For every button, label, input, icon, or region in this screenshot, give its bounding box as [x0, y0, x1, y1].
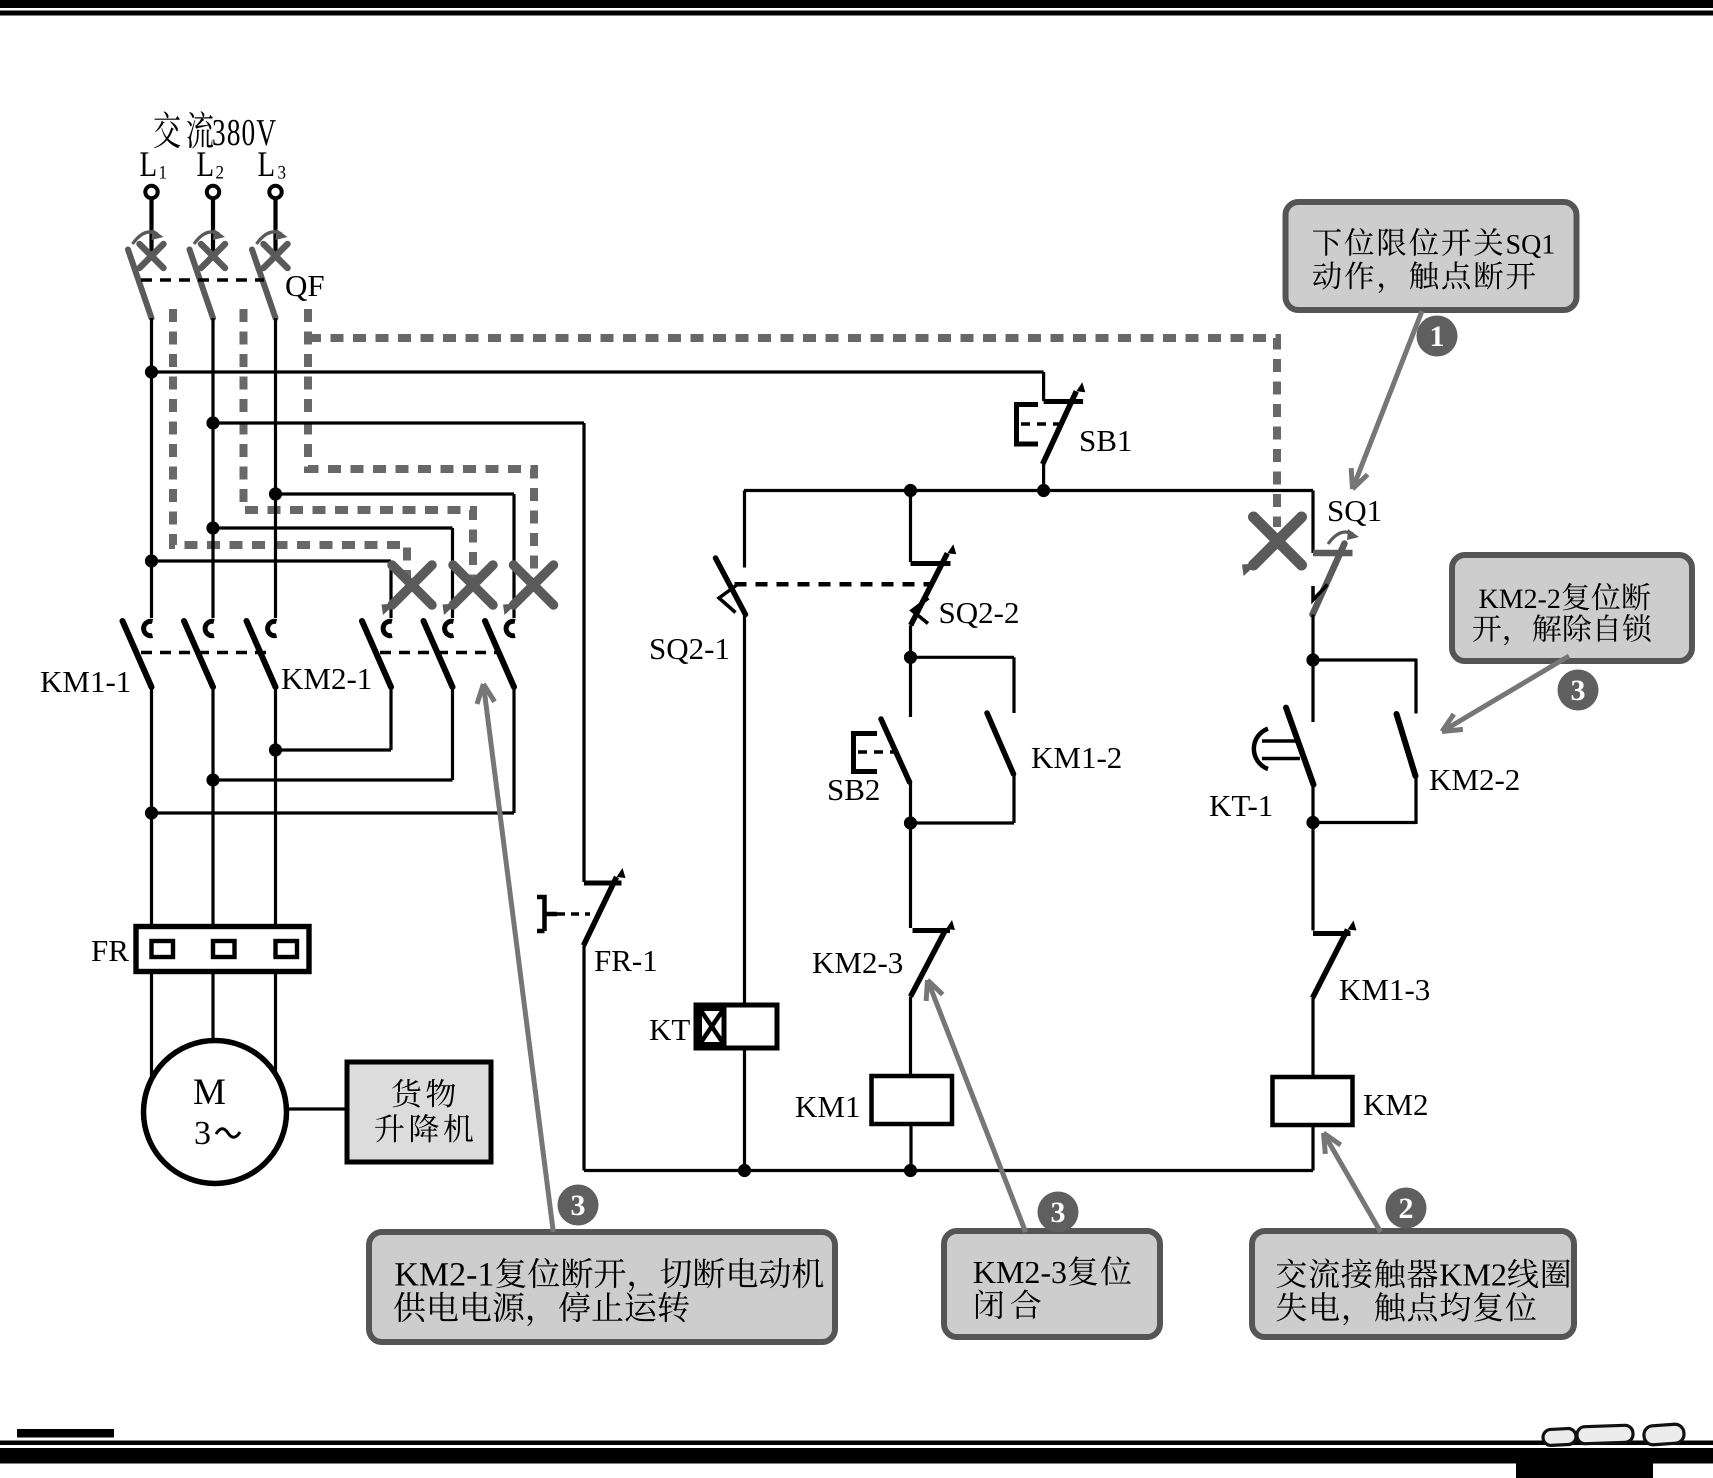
node KT bottom — [738, 1164, 751, 1177]
trip-link dashed bus B (QF pole2 to KM2-1 pole2) — [244, 309, 474, 585]
wire L3 vertical — [274, 318, 277, 618]
wire FR out 1 — [150, 971, 153, 1080]
contact KM1-1 pole3 blade — [247, 621, 276, 687]
contact KM1-1 pole1 hook — [144, 621, 153, 635]
wire KM2-1 pole1 cross — [276, 748, 392, 751]
contact FR-1 actuator — [537, 897, 557, 931]
callout SQ1 text line1 — [1313, 229, 1341, 256]
callout KM2 box — [1252, 1231, 1574, 1337]
limit switch SQ2-2 blade — [911, 553, 948, 625]
wire KM1-1 pole1 out — [150, 686, 153, 927]
FR heater 2 — [213, 941, 235, 957]
wire KM2-2 drop — [1414, 659, 1417, 714]
terminal L1 label — [140, 152, 155, 176]
wire KM2-1 pole3 cross — [152, 811, 515, 814]
contact KM2-1 pole1 hook — [383, 621, 392, 635]
border bottom rule — [0, 1441, 1713, 1446]
pushbutton SB2 blade — [881, 719, 910, 782]
wire L2 vertical — [211, 318, 214, 618]
pushbutton SB1 cap — [1017, 405, 1039, 445]
motor M circle — [144, 1041, 287, 1184]
svg-text:SQ1: SQ1 — [1327, 493, 1382, 528]
callout SQ1 text line2 — [1313, 261, 1341, 289]
QF pole1 blade — [128, 250, 152, 319]
border top rule — [0, 11, 1713, 16]
callout KM2 text line1 — [1277, 1259, 1307, 1288]
svg-text:SB1: SB1 — [1079, 423, 1132, 458]
wire KM2-1 pole2 drop — [451, 528, 454, 618]
wire KM1-1 pole2 out — [211, 686, 214, 927]
KM2-1 pole2 X mark — [453, 565, 493, 605]
trip-link dashed bus C (QF pole3 to KM2-1 pole3) — [308, 309, 534, 585]
callout KM2-1 text line2 — [394, 1292, 425, 1322]
wire KM2-1 pole3 out — [512, 686, 515, 813]
contact KM2-3 blade — [911, 929, 947, 997]
wire KM1-3 drop — [1311, 823, 1314, 931]
wire SB2 drop — [909, 657, 912, 717]
wire KM2-3 out — [909, 997, 912, 1077]
trip-link dashed bus A (QF pole1 to KM2-1 pole1) — [173, 309, 407, 585]
wire KM2-1 pole1 out — [389, 686, 392, 750]
wire KM2-2 out — [1414, 776, 1417, 824]
contact FR-1 blade — [584, 877, 617, 946]
pushbutton SB2 cap — [854, 734, 878, 772]
limit switch SQ1 open-arrow — [1328, 532, 1353, 544]
contact KM1-1 pole3 hook — [268, 621, 277, 635]
wire FR out 2 — [211, 971, 214, 1041]
contact KM1-3 blade — [1313, 930, 1348, 999]
wire KM2-1 pole2 out — [451, 686, 454, 780]
badge 2 — [1386, 1188, 1427, 1229]
QF linkage dashes — [141, 278, 264, 282]
contact KM2-1 pole2 hook — [445, 621, 454, 635]
wire KT out — [743, 1048, 746, 1171]
wire KM1 out — [909, 1124, 912, 1171]
svg-text:SB2: SB2 — [827, 772, 880, 807]
svg-text:KM2: KM2 — [1363, 1087, 1428, 1122]
coil KT — [696, 1005, 777, 1048]
node KM1 bottom — [904, 1164, 917, 1177]
QF pole2 X mark — [201, 244, 225, 268]
callout KM2-3 text line1 — [974, 1262, 996, 1283]
wire KM1-2 top branch — [911, 656, 1015, 659]
QF pole3 X mark — [264, 244, 288, 268]
terminal L2 label — [197, 152, 212, 176]
svg-text:KM2-1: KM2-1 — [281, 661, 372, 696]
callout KM2-1 text line1 — [395, 1263, 418, 1285]
wire KM2-1 pole1 drop — [389, 561, 392, 618]
contact FR-1 link dashes — [557, 912, 590, 916]
callout KM2 text line2 — [1277, 1292, 1307, 1321]
QF pole3 open-arrow — [257, 232, 282, 244]
node KM2-1 pole3 join — [145, 806, 158, 819]
wire KT-1 out — [1311, 785, 1314, 823]
wire KM2-1 pole3 drop — [512, 494, 515, 618]
wire L1 vertical — [150, 318, 153, 618]
wire FR-1 feed — [213, 421, 584, 424]
contact KM2-1 pole3 blade — [485, 621, 514, 687]
arrow callout3 to KM2-1 — [483, 684, 553, 1232]
load box 货物升降机 — [347, 1062, 491, 1162]
coil KM2 — [1273, 1077, 1353, 1125]
callout KM2-3 text line2 — [976, 1289, 1003, 1319]
svg-text:KT: KT — [649, 1012, 690, 1047]
coil KM1 — [872, 1076, 953, 1124]
node KT-1 top junction — [1306, 653, 1319, 666]
svg-text:FR: FR — [91, 933, 129, 968]
wire KM1-1 pole3 out — [274, 686, 277, 927]
contact KM1-3 bar — [1313, 931, 1351, 936]
QF pole1 X mark — [140, 244, 164, 268]
contact KM2-3 bar — [913, 928, 951, 933]
limit switch SQ2-1 blade — [716, 558, 746, 615]
wire L3 drop — [273, 199, 277, 257]
wire SQ2-1 drop — [743, 491, 746, 568]
wire KM2-1 pole2 feed — [213, 526, 453, 529]
contact KM2-1 pole3 hook — [506, 621, 515, 635]
svg-text:3: 3 — [194, 1115, 211, 1152]
svg-text:QF: QF — [285, 268, 325, 303]
wire L2 drop — [211, 199, 215, 257]
arrow callout5 to KM2 — [1324, 1133, 1381, 1232]
svg-text:FR-1: FR-1 — [594, 943, 658, 978]
wire KM2-1 pole1 feed — [152, 559, 392, 562]
wire SB1 out — [1042, 463, 1045, 491]
svg-text:2: 2 — [1399, 1192, 1414, 1225]
wire KM2 out — [1311, 1125, 1314, 1171]
contact KT-1 blade — [1286, 708, 1314, 785]
wire motor to load box — [287, 1107, 348, 1110]
callout KM2-2 text line2 — [1473, 615, 1501, 642]
limit switch SQ2-2 bar — [911, 561, 951, 566]
doodle capsules — [1543, 1424, 1685, 1446]
svg-text:3: 3 — [571, 1189, 586, 1222]
QF pole1 open-arrow — [133, 232, 158, 244]
callout KM2-2 box — [1452, 555, 1692, 661]
SQ1 X mark — [1254, 517, 1302, 565]
node SB2 bottom junction — [904, 816, 917, 829]
label 交流380V — [154, 111, 180, 148]
wire KM2-1 pole2 cross — [213, 778, 453, 781]
wire KM1-3 out — [1311, 998, 1314, 1077]
contact KM2-1 pole2 blade — [424, 621, 453, 687]
arrow callout2 to KM2-2 — [1442, 656, 1569, 732]
KM2-1 pole3 X mark — [514, 565, 554, 605]
limit switch SQ1 blade — [1313, 544, 1345, 615]
FR heater 1 — [152, 941, 174, 957]
callout KM2-3 box — [944, 1231, 1160, 1337]
wire KM1-2 bottom branch — [911, 821, 1015, 824]
wire KM2-2 top branch — [1313, 658, 1416, 661]
limit switch SQ1 wedge — [1313, 585, 1328, 601]
wire L1 drop — [149, 199, 153, 257]
badge 3 at KM2-1 — [558, 1185, 599, 1226]
contact KM1-1 pole2 blade — [184, 621, 213, 687]
wire FR-1 drop — [582, 423, 585, 882]
badge 3 at KM2-3 — [1038, 1192, 1079, 1233]
terminal L2 circle — [207, 186, 219, 198]
wire control bus — [744, 489, 1313, 492]
node KM2-1 pole1 join — [269, 743, 282, 756]
badge 3 at KM2-2 — [1558, 670, 1599, 711]
wire KT-1 drop — [1311, 660, 1314, 722]
node L1-control tap — [145, 365, 158, 378]
SQ2 linkage dashes — [735, 582, 930, 587]
node L3-KM2 tap — [269, 487, 282, 500]
svg-text:KM1-2: KM1-2 — [1031, 740, 1122, 775]
pushbutton SB2 link dashes — [858, 750, 899, 754]
wire SQ2-2 drop — [909, 491, 912, 563]
svg-text:KM2-3: KM2-3 — [812, 945, 903, 980]
contact KM1-1 pole1 blade — [123, 621, 152, 687]
FR box — [136, 927, 309, 972]
border bottom stub — [17, 1429, 114, 1438]
contact KT-1 delay arrow — [1262, 741, 1300, 759]
trip-link dashed bus D (to SQ1) — [308, 338, 1277, 527]
node KM1-2 top junction — [904, 651, 917, 664]
svg-text:3: 3 — [1571, 674, 1586, 707]
arrow callout1 to SQ1 — [1353, 311, 1423, 489]
wire control feed top — [152, 370, 1044, 373]
svg-text:KM1-1: KM1-1 — [40, 664, 131, 699]
wire KM1-2 out — [1012, 774, 1015, 823]
node L2-control tap — [206, 416, 219, 429]
KM2-1 pole1 X mark — [392, 565, 432, 605]
contact FR-1 bar — [584, 881, 622, 886]
wire SQ2-1 out — [743, 615, 746, 1006]
node KT-1 bottom junction — [1306, 816, 1319, 829]
wire KM2-1 pole3 feed — [276, 492, 515, 495]
contact KM1-2 blade — [987, 713, 1014, 774]
svg-text:SQ2-2: SQ2-2 — [939, 595, 1020, 630]
wire bottom bus — [584, 1169, 1313, 1172]
badge 1 — [1417, 316, 1458, 357]
FR heater 3 — [276, 941, 298, 957]
wire SQ1 out — [1311, 615, 1314, 661]
contacts linkage dashes KM1-1 — [141, 651, 268, 655]
contact KM1-1 pole2 hook — [205, 621, 214, 635]
svg-text:1: 1 — [1430, 320, 1445, 353]
limit switch SQ2-2 wedge — [912, 598, 929, 624]
pushbutton SB1 blade — [1043, 391, 1077, 464]
border bottom bar — [0, 1448, 1713, 1464]
coil KT delay box — [700, 1009, 725, 1045]
wire SB1 drop — [1042, 372, 1045, 401]
wire SQ2-2 out — [909, 625, 912, 657]
svg-text:KT-1: KT-1 — [1209, 788, 1273, 823]
svg-text:M: M — [193, 1072, 226, 1113]
terminal L1 circle — [145, 186, 157, 198]
svg-text:KM2-2: KM2-2 — [1429, 762, 1520, 797]
QF pole2 open-arrow — [194, 232, 219, 244]
node L2-KM2 tap — [206, 521, 219, 534]
limit switch SQ2-1 wedge — [719, 585, 738, 613]
terminal L3 label — [258, 152, 273, 176]
wire KM2-3 drop — [909, 823, 912, 928]
arrow callout4 to KM2-3 — [928, 980, 1026, 1232]
QF pole2 blade — [190, 250, 214, 319]
wire KM2-2 bottom branch — [1313, 821, 1416, 824]
terminal L3 circle — [269, 186, 281, 198]
node KM2-1 pole2 join — [206, 773, 219, 786]
load box text 升降机 — [375, 1114, 404, 1142]
contact KM2-2 blade — [1397, 714, 1416, 776]
contacts linkage dashes KM2-1 — [380, 651, 500, 655]
callout KM2-2 text line1 — [1479, 590, 1498, 608]
limit switch SQ1 bar — [1313, 550, 1353, 557]
border top bar — [0, 0, 1713, 8]
callout KM2-1 box — [369, 1232, 835, 1342]
svg-text:SQ2-1: SQ2-1 — [649, 631, 730, 666]
callout SQ1 box — [1286, 202, 1577, 310]
contact KM2-1 pole1 blade — [362, 621, 391, 687]
node SQ2-2 junction — [904, 484, 917, 497]
wire SB2 out — [909, 782, 912, 823]
pushbutton SB1 link dashes — [1021, 422, 1059, 426]
pushbutton SB1 bar — [1044, 399, 1084, 404]
wire SQ1 drop — [1311, 491, 1314, 554]
node L1-KM2 tap — [145, 554, 158, 567]
wire KM1-2 drop — [1012, 657, 1015, 713]
svg-text:KM1: KM1 — [795, 1089, 860, 1124]
border bottom right block — [1516, 1462, 1653, 1478]
wire FR out 3 — [274, 971, 277, 1075]
load box text 货物 — [392, 1079, 420, 1108]
svg-text:KM1-3: KM1-3 — [1339, 972, 1430, 1007]
wire FR-1 out — [582, 946, 585, 1171]
svg-text:3: 3 — [1051, 1196, 1066, 1229]
node SB1 junction — [1037, 484, 1050, 497]
QF pole3 blade — [252, 250, 276, 319]
